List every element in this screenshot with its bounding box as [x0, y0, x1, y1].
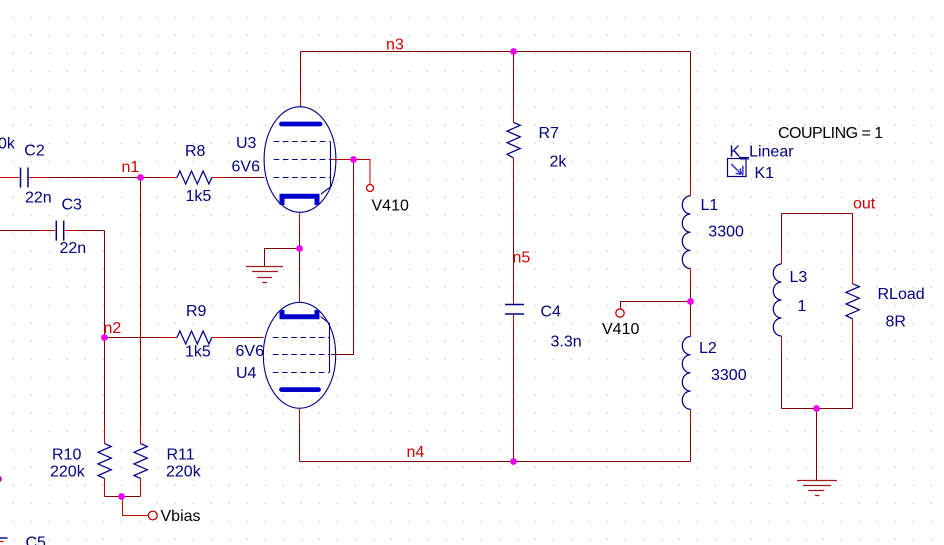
wire out block bottom	[782, 408, 853, 410]
lead U3 plate	[300, 92, 302, 107]
lead C2 left	[0, 177, 20, 179]
svg-text:3300: 3300	[711, 367, 747, 384]
lead C3	[42, 230, 78, 232]
junction bias	[118, 493, 125, 500]
tube U3 grids dashed	[274, 142, 330, 178]
wire R10 R11 bottom join	[105, 496, 141, 498]
resistor RLoad	[846, 284, 859, 319]
tube U3 plate bar	[282, 122, 321, 127]
capacitor C3	[56, 221, 63, 241]
wire n3 top	[301, 51, 691, 53]
wire C4 to n4	[513, 327, 515, 462]
svg-text:C2: C2	[24, 142, 45, 159]
tube U4 cathode	[282, 310, 317, 317]
svg-text:L3: L3	[790, 269, 808, 286]
wire U3 plate up	[300, 52, 302, 93]
tube U3 cathode	[282, 196, 317, 205]
wire n4 bottom	[300, 461, 691, 463]
svg-text:R11: R11	[167, 447, 195, 464]
lead R10 R11	[105, 428, 141, 497]
svg-text:3.3n: 3.3n	[551, 334, 582, 351]
tube U3	[264, 107, 336, 213]
junction n4	[510, 458, 517, 465]
svg-text:C5: C5	[26, 535, 47, 545]
svg-text:n4: n4	[407, 444, 425, 461]
inductor L2	[682, 337, 690, 410]
svg-text:6V6: 6V6	[232, 158, 261, 175]
capacitor C5 partial	[0, 537, 8, 539]
lead L1	[690, 181, 692, 284]
svg-text:6V6: 6V6	[236, 343, 265, 360]
svg-text:Vbias: Vbias	[161, 508, 201, 525]
terminal Vbias	[148, 511, 157, 520]
svg-text:K_Linear: K_Linear	[730, 144, 795, 161]
junction n3	[510, 48, 517, 55]
resistor R11	[134, 444, 147, 479]
junction screen	[350, 156, 357, 163]
tube U3 envelope	[264, 107, 336, 213]
tube U4 envelope	[263, 302, 335, 408]
lead L3	[781, 250, 783, 350]
svg-text:1k5: 1k5	[186, 188, 212, 205]
junction n1	[137, 174, 144, 181]
svg-text:RLoad: RLoad	[878, 286, 925, 303]
lead C2 right	[29, 177, 47, 179]
ground left	[246, 267, 283, 283]
wire out block right upper	[852, 214, 854, 256]
junction L1L2	[687, 298, 694, 305]
junction out block	[813, 405, 820, 412]
wire out block right lower	[852, 345, 854, 409]
tube U4 beam bar	[321, 317, 330, 373]
svg-text:U4: U4	[236, 365, 257, 382]
svg-text:3300: 3300	[708, 224, 744, 241]
lead U4 plate	[299, 409, 301, 424]
svg-text:8R: 8R	[886, 314, 906, 331]
wire U4 plate down	[299, 423, 301, 462]
svg-text:2k: 2k	[550, 153, 568, 170]
wire ground left stub	[265, 249, 300, 267]
svg-text:220k: 220k	[166, 464, 202, 481]
ground right	[797, 481, 837, 496]
svg-text:22n: 22n	[60, 240, 87, 257]
lead Vbias	[123, 497, 149, 516]
svg-text:V410: V410	[372, 198, 409, 215]
terminal V410b	[616, 309, 624, 317]
junction n2	[101, 334, 108, 341]
coupling K1 symbol	[728, 158, 750, 177]
svg-text:R10: R10	[52, 447, 81, 464]
wire right vertical below L2	[690, 424, 692, 462]
svg-text:R8: R8	[185, 143, 206, 160]
svg-text:V410: V410	[602, 321, 639, 338]
inductor L1	[682, 196, 690, 269]
wire R8 to U3 grid	[226, 177, 265, 179]
svg-text:1k5: 1k5	[185, 344, 211, 361]
resistor R10	[98, 444, 111, 479]
lead L2	[690, 322, 692, 424]
svg-text:n1: n1	[122, 159, 140, 176]
tube U4 plate bar	[282, 387, 319, 392]
wire V410b horizontal	[621, 302, 691, 309]
svg-text:R9: R9	[186, 303, 207, 320]
terminal V410a	[367, 185, 374, 192]
wire R7 to C4	[513, 172, 515, 299]
junction left edge	[0, 476, 2, 483]
lead RLoad	[852, 255, 854, 345]
svg-text:0k: 0k	[0, 136, 16, 153]
svg-text:L2: L2	[699, 340, 717, 357]
svg-text:L1: L1	[701, 197, 719, 214]
svg-text:1: 1	[798, 298, 807, 315]
svg-text:C3: C3	[62, 196, 83, 213]
svg-text:out: out	[853, 196, 876, 213]
wire right ground stub	[816, 409, 818, 481]
wire n1 row	[47, 177, 163, 179]
capacitor C2	[21, 168, 29, 188]
svg-text:U3: U3	[236, 135, 257, 152]
resistor R9	[177, 331, 212, 344]
wire n3 junction down to R7	[513, 52, 515, 109]
junction cathode	[296, 245, 303, 252]
svg-text:K1: K1	[755, 165, 775, 182]
tube U4 grids dashed	[273, 338, 329, 373]
svg-text:22n: 22n	[25, 189, 52, 206]
tube U4 (flipped)	[263, 302, 335, 408]
wire right vertical between coils	[690, 284, 692, 322]
svg-text:220k: 220k	[50, 464, 86, 481]
svg-text:COUPLING = 1: COUPLING = 1	[778, 125, 883, 142]
wire out block left vertical	[781, 214, 783, 251]
wire out block top	[782, 213, 853, 215]
lead C4	[513, 299, 515, 327]
svg-text:n3: n3	[386, 37, 404, 54]
tube U3 beam bar	[321, 142, 331, 195]
lead R7	[513, 108, 515, 172]
wire cathode chain	[299, 227, 301, 287]
wire C3 row and down to R10	[0, 231, 105, 429]
resistor R7	[507, 122, 520, 158]
capacitor C4	[505, 305, 524, 315]
resistor R8	[177, 171, 212, 184]
svg-text:n5: n5	[513, 250, 531, 267]
wire n1 vertical down to R11	[140, 178, 142, 429]
inductor L3	[773, 264, 781, 336]
lead R9	[163, 337, 226, 339]
wire out block left lower	[781, 350, 783, 409]
wire screen chain vertical	[331, 160, 354, 355]
svg-text:n2: n2	[104, 320, 122, 337]
lead R8	[163, 177, 226, 179]
svg-text:R7: R7	[539, 125, 560, 142]
lead V410a	[354, 160, 371, 185]
wire right vertical L1 top	[690, 52, 692, 182]
lead U3 cathode / U4 cathode	[299, 212, 301, 302]
lead U3 screen out	[331, 159, 354, 161]
wire n2 row to U4 grid	[105, 337, 264, 339]
svg-text:C4: C4	[541, 304, 562, 321]
